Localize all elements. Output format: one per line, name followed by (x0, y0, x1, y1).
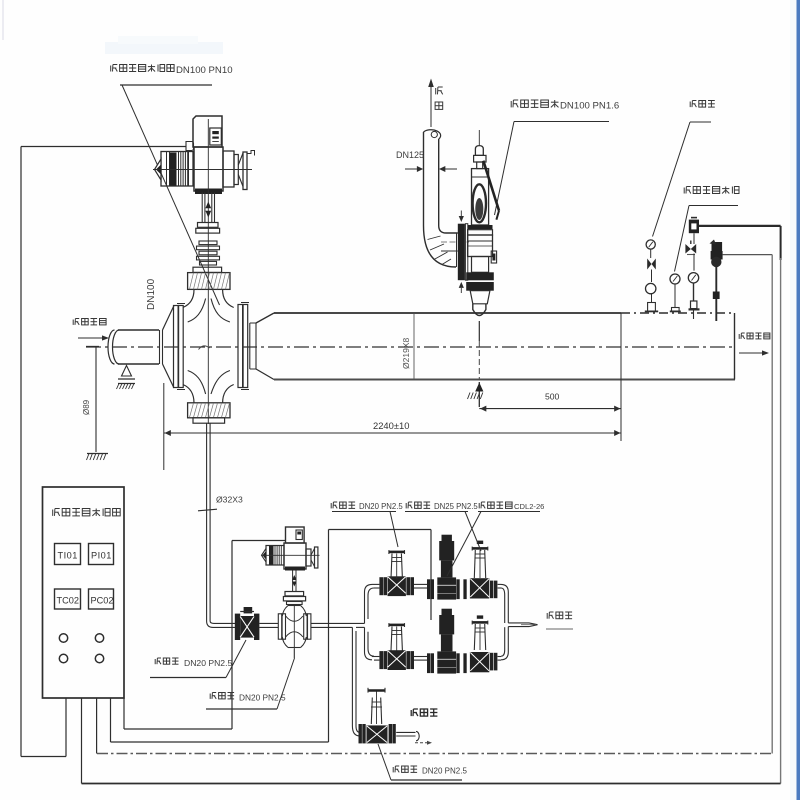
svg-text:Ø219X8: Ø219X8 (401, 338, 411, 369)
svg-text:CDL2-26: CDL2-26 (514, 502, 544, 511)
svg-text:500: 500 (545, 392, 560, 402)
svg-text:2240±10: 2240±10 (373, 420, 409, 431)
svg-text:DN100 PN1.6: DN100 PN1.6 (560, 101, 619, 112)
svg-text:Ø32X3: Ø32X3 (216, 495, 243, 505)
svg-text:PI01: PI01 (91, 551, 112, 561)
svg-text:DN20 PN2.5: DN20 PN2.5 (239, 693, 286, 703)
svg-text:DN20 PN2.5: DN20 PN2.5 (422, 767, 467, 776)
svg-text:DN25 PN2.5: DN25 PN2.5 (434, 502, 478, 511)
svg-text:PC02: PC02 (91, 596, 114, 606)
svg-text:DN125: DN125 (396, 150, 424, 160)
svg-text:DN100: DN100 (146, 278, 157, 310)
svg-text:TI01: TI01 (58, 551, 78, 561)
svg-text:Ø89: Ø89 (82, 399, 91, 415)
svg-text:TC02: TC02 (57, 596, 79, 606)
svg-text:DN20 PN2.5: DN20 PN2.5 (359, 502, 403, 511)
svg-text:DN100 PN10: DN100 PN10 (176, 65, 233, 76)
svg-text:DN20 PN2.5: DN20 PN2.5 (184, 658, 232, 668)
